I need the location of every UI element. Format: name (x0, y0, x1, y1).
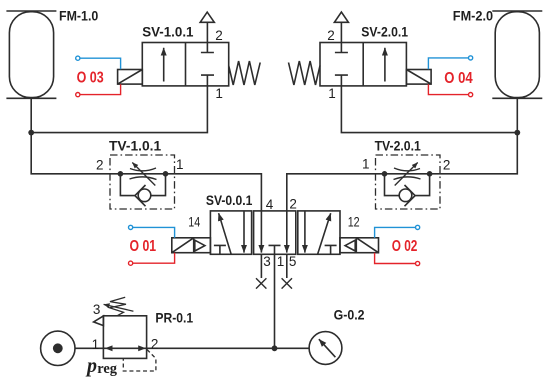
pressure regulator PR-0.1 body (103, 316, 146, 359)
TV-1.0.1 adjustment arrow (132, 163, 155, 186)
SV-0.0.1 port 1 supply stem (274, 254, 276, 348)
TV-2.0.1 check valve ball (399, 189, 412, 202)
svg-text:2: 2 (289, 197, 297, 212)
svg-text:PR-0.1: PR-0.1 (155, 310, 193, 326)
SV-0.0.1 left square diagonal arrow 1-4 (219, 213, 232, 254)
wire FM-1.0 to TV-1.0.1 and to SV-0.0.1 port 4 (31, 98, 261, 211)
svg-text:2: 2 (96, 157, 104, 172)
SV-2.0.1 return spring (289, 61, 321, 85)
SV-0.0.1 centre down arrow 4-3 (260, 211, 262, 253)
svg-text:2: 2 (151, 337, 159, 352)
SV-1.0.1 exhaust triangle (200, 12, 214, 22)
SV-2.0.1 solenoid (406, 70, 431, 85)
svg-text:O 02: O 02 (392, 238, 418, 255)
svg-text:1: 1 (277, 254, 285, 269)
PR-0.1 adjusting spring (110, 297, 127, 315)
svg-text:2: 2 (327, 28, 335, 43)
svg-text:O 01: O 01 (130, 238, 157, 255)
TV-2.0.1 node 2 dot (427, 171, 433, 177)
electric terminal O 02 (375, 225, 420, 237)
SV-1.0.1 blocked port 1 (T) (201, 75, 214, 86)
SV-2.0.1 blocked port 1 (T) (335, 75, 348, 86)
svg-text:4: 4 (266, 197, 274, 212)
main supply line (75, 347, 309, 349)
throttle valve TV-2.0.1 enclosure (376, 155, 441, 209)
fluidic muscle FM-1.0 bottom plate (6, 97, 56, 99)
TV-2.0.1 check valve seat (405, 185, 416, 206)
fluidic muscle FM-2.0 bottom plate (492, 97, 542, 99)
junction dot right (514, 130, 520, 136)
svg-text:SV-1.0.1: SV-1.0.1 (142, 23, 194, 39)
SV-0.0.1 right square down arrow (304, 211, 306, 253)
wire SV-1.0.1 port 1 to FM-1.0 line (31, 86, 207, 133)
svg-text:G-0.2: G-0.2 (334, 307, 365, 323)
PR-0.1 relief triangle port 3 (94, 316, 104, 326)
valve SV-2.0.1 body (320, 43, 406, 86)
TV-2.0.1 adjustment arrow (395, 163, 418, 186)
SV-0.0.1 right square blocked T (325, 245, 337, 254)
svg-text:12: 12 (348, 215, 360, 230)
SV-2.0.1 port 2 stem (340, 22, 342, 42)
SV-2.0.1 flow arrow (right square) (384, 48, 386, 82)
svg-text:p: p (85, 355, 97, 377)
compressed air source (41, 331, 75, 365)
wire FM-2.0 to TV-2.0.1 and to SV-0.0.1 port 2 (287, 98, 518, 211)
TV-2.0.1 check valve branch (385, 174, 430, 196)
svg-text:SV-2.0.1: SV-2.0.1 (361, 23, 408, 39)
SV-0.0.1 left square down arrow (243, 211, 245, 253)
TV-1.0.1 check valve ball (138, 189, 151, 202)
SV-0.0.1 port 5 exhaust stem (286, 254, 288, 278)
valve SV-1.0.1 body (142, 43, 228, 86)
PR-0.1 spring arrow (104, 304, 134, 311)
svg-text:FM-2.0: FM-2.0 (453, 8, 493, 24)
SV-0.0.1 right square diagonal arrow 1-2 (318, 213, 331, 254)
SV-0.0.1 centre blocked T port 1 (269, 245, 281, 254)
SV-2.0.1 exhaust triangle (334, 12, 348, 22)
SV-0.0.1 left square blocked T (214, 245, 226, 254)
supply junction dot (272, 345, 278, 351)
svg-text:O 03: O 03 (77, 69, 104, 86)
SV-0.0.1 left pilot triangle (195, 240, 205, 251)
svg-text:1: 1 (215, 86, 223, 101)
SV-1.0.1 return spring (229, 61, 261, 85)
throttle valve TV-1.0.1 enclosure (110, 155, 175, 209)
valve SV-0.0.1 centre position square (254, 211, 296, 254)
svg-text:reg: reg (97, 361, 117, 377)
SV-1.0.1 port 2 stem (206, 22, 208, 42)
junction dot left (28, 130, 34, 136)
TV-1.0.1 check valve seat (135, 185, 146, 206)
fluidic muscle FM-2.0 top plate (492, 10, 542, 12)
electric terminal O 04 (428, 56, 472, 70)
SV-0.0.1 port 3 exhaust stem (260, 254, 262, 278)
fluidic muscle FM-1.0 top plate (6, 10, 56, 12)
SV-2.0.1 blocked port 2 (T) (335, 43, 348, 53)
TV-1.0.1 check valve branch (120, 174, 165, 196)
valve SV-0.0.1 right position square (298, 211, 340, 254)
valve SV-0.0.1 left position square (210, 211, 251, 254)
port 3 plug X (256, 278, 266, 288)
svg-text:1: 1 (92, 337, 100, 352)
TV-1.0.1 node 2 dot (118, 171, 124, 177)
svg-text:1: 1 (176, 157, 184, 172)
PR-0.1 flow arrows (105, 345, 146, 351)
svg-text:1: 1 (328, 86, 336, 101)
svg-text:TV-2.0.1: TV-2.0.1 (375, 137, 421, 153)
svg-text:14: 14 (188, 215, 200, 230)
SV-0.0.1 left pilot/solenoid box (172, 238, 211, 253)
svg-text:5: 5 (289, 254, 297, 269)
svg-text:1: 1 (362, 157, 370, 172)
svg-text:SV-0.0.1: SV-0.0.1 (206, 192, 253, 208)
svg-text:2: 2 (215, 28, 223, 43)
pressure gauge G-0.2 (309, 332, 342, 365)
fluidic muscle FM-1.0 body (9, 12, 53, 98)
SV-0.0.1 centre down arrow 2-5 (286, 211, 288, 253)
svg-text:3: 3 (93, 302, 101, 317)
G-0.2 needle (319, 339, 336, 357)
SV-0.0.1 right pilot triangle (345, 240, 355, 251)
SV-1.0.1 blocked port 2 (T) (201, 43, 214, 53)
PR-0.1 pilot feedback dashed line (123, 350, 156, 372)
TV-2.0.1 node 1 dot (382, 171, 388, 177)
svg-text:2: 2 (443, 158, 451, 173)
TV-1.0.1 throttle arcs (130, 168, 157, 180)
svg-text:FM-1.0: FM-1.0 (59, 8, 98, 24)
electric terminal O 03 (76, 56, 121, 69)
TV-1.0.1 node 1 dot (163, 171, 169, 177)
wire SV-2.0.1 port 1 to FM-2.0 line (341, 86, 517, 133)
SV-0.0.1 right pilot/solenoid box (340, 238, 379, 253)
port 5 plug X (282, 278, 292, 288)
fluidic muscle FM-2.0 body (495, 12, 539, 98)
SV-1.0.1 flow arrow (left square) (163, 48, 165, 82)
svg-text:3: 3 (263, 254, 271, 269)
SV-1.0.1 solenoid (118, 70, 143, 85)
TV-2.0.1 throttle arcs (394, 168, 421, 180)
electric terminal O 01 (129, 225, 175, 237)
svg-text:TV-1.0.1: TV-1.0.1 (109, 137, 161, 153)
svg-text:O 04: O 04 (444, 70, 473, 87)
